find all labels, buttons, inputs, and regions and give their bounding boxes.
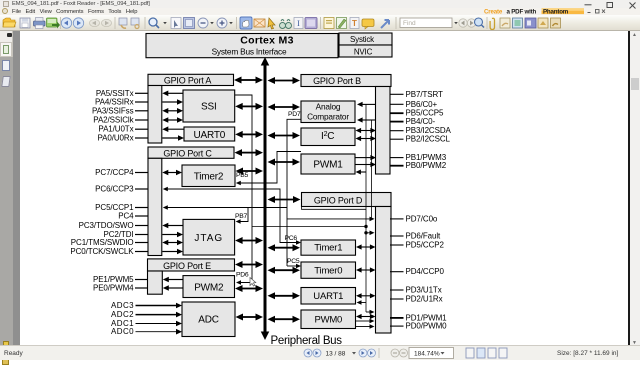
block JTAG	[183, 219, 235, 255]
GPIO Port A pin bar	[148, 86, 162, 144]
wire PortD box corner to Va	[302, 207, 367, 210]
pin PC0/TCK/SWCLK	[70, 247, 148, 256]
pin PC6/CCP3	[95, 185, 148, 194]
svg-text:PD5/CCP2: PD5/CCP2	[406, 241, 445, 250]
pin PC5/CCP1	[95, 203, 148, 212]
wire UART0 out U0Tx	[162, 126, 184, 132]
GPIO Port B pin bar	[376, 87, 391, 175]
svg-text:PA1/U0Tx: PA1/U0Tx	[98, 125, 133, 134]
pin PD7/C0o	[390, 214, 438, 223]
wire PortC label-bus	[235, 149, 264, 156]
wire JTAG out TDO	[162, 223, 183, 229]
wire JTAG in TCK	[162, 249, 183, 255]
pin PB2/I2CSCL	[390, 135, 451, 144]
svg-text:ADC3: ADC3	[111, 301, 134, 310]
svg-text:PC6: PC6	[285, 235, 298, 242]
svg-text:PD7: PD7	[288, 111, 301, 118]
svg-text:PD6: PD6	[236, 272, 249, 279]
wire PWM1 out PWM3	[356, 155, 377, 160]
pin PB7/TSRT	[390, 90, 443, 99]
pin PD1/PWM1	[390, 313, 447, 322]
wire ADC-bus	[236, 314, 264, 321]
wire UART1 TxRx	[356, 293, 376, 298]
svg-text:Peripheral Bus: Peripheral Bus	[271, 335, 343, 347]
svg-text:Systick: Systick	[350, 35, 375, 44]
svg-text:ADC0: ADC0	[111, 327, 134, 336]
junction dot net Va lower	[364, 231, 367, 234]
svg-text:PWM1: PWM1	[313, 160, 343, 171]
svg-text:PA4/SSIRx: PA4/SSIRx	[95, 98, 134, 107]
pin PB5/CCP5	[390, 109, 444, 118]
svg-text:UART1: UART1	[313, 291, 343, 302]
mouse cursor	[250, 278, 256, 287]
block GPIO Port E label	[148, 259, 235, 271]
pin PD4/CCP0	[390, 267, 444, 276]
svg-text:PD7/C0o: PD7/C0o	[406, 214, 438, 223]
pin PB4/C0-	[390, 117, 435, 126]
svg-text:PB4/C0-: PB4/C0-	[406, 117, 436, 126]
toolbar	[0, 15, 640, 31]
svg-text:GPIO Port D: GPIO Port D	[314, 195, 363, 205]
svg-text:PWM0: PWM0	[314, 315, 342, 326]
wire net PD6 trunk	[235, 95, 252, 283]
wire comparator in C0-	[357, 117, 376, 122]
svg-text:PC7/CCP4: PC7/CCP4	[95, 168, 134, 177]
pin PD5/CCP2	[390, 241, 444, 250]
wire SSI SSIFss	[162, 108, 183, 114]
wire Va to PortD bar mid	[366, 231, 375, 236]
wire Timer2-bus	[236, 168, 264, 175]
svg-text:Cortex M3: Cortex M3	[240, 35, 293, 47]
svg-text:Comparator: Comparator	[307, 111, 349, 121]
svg-text:Timer0: Timer0	[314, 265, 342, 276]
svg-text:ADC2: ADC2	[111, 310, 134, 319]
svg-text:PE0/PWM4: PE0/PWM4	[93, 284, 134, 293]
svg-text:GPIO Port A: GPIO Port A	[164, 76, 212, 86]
pin PA2/SSIClk	[93, 116, 148, 125]
wire net PD6 cross to Va	[252, 226, 366, 228]
wire net PB5 Timer2 to PWM1	[236, 152, 301, 186]
block GPIO Port C label	[148, 147, 234, 158]
svg-text:PA0/U0Rx: PA0/U0Rx	[98, 134, 134, 143]
block PWM2	[183, 276, 235, 298]
pin PD6/Fault	[390, 232, 441, 241]
menu bar	[0, 8, 640, 15]
status bar	[0, 345, 640, 360]
pin ADC1	[111, 319, 182, 328]
svg-text:PC4: PC4	[118, 212, 134, 221]
pin PC7/CCP4	[95, 168, 148, 177]
left navigation strip	[0, 31, 13, 345]
svg-text:PB5: PB5	[236, 172, 248, 179]
svg-text:PD4/CCP0: PD4/CCP0	[406, 267, 445, 276]
wire UART1 extra in	[357, 300, 367, 305]
wire net PC5	[163, 205, 301, 268]
svg-text:SSI: SSI	[201, 102, 217, 113]
svg-text:PB0/PWM2: PB0/PWM2	[406, 161, 447, 170]
svg-text:PWM2: PWM2	[194, 283, 224, 294]
wire net PD7 comparator output	[287, 119, 375, 266]
svg-text:PC5: PC5	[287, 258, 300, 265]
document background gray	[13, 31, 20, 345]
svg-text:PB7: PB7	[235, 213, 247, 220]
wire net PC6	[163, 187, 301, 245]
pin PA1/U0Tx	[98, 125, 148, 134]
wire I2C SCL	[356, 136, 377, 141]
block GPIO Port D label	[302, 193, 392, 207]
pin PB6/C0+	[390, 100, 437, 109]
svg-text:GPIO Port C: GPIO Port C	[163, 148, 212, 158]
wire JTAG TMS/SWDIO	[162, 240, 183, 246]
pin PA0/U0Rx	[98, 134, 148, 143]
svg-text:PA3/SSIFss: PA3/SSIFss	[92, 106, 134, 115]
wire PWM0 out PD1	[356, 319, 375, 324]
block UART1	[301, 288, 356, 305]
block Timer2	[182, 165, 235, 187]
svg-text:PA2/SSIClk: PA2/SSIClk	[93, 116, 134, 125]
block I2C	[301, 128, 355, 146]
svg-text:PD6/Fault: PD6/Fault	[406, 232, 442, 241]
wire Va fault into PWM1	[356, 170, 367, 175]
block Analog Comparator	[301, 101, 355, 123]
wire PortE label-bus	[235, 261, 263, 268]
svg-text:I2C: I2C	[321, 131, 334, 142]
wire SSI in SSIRx	[162, 99, 183, 105]
pin PC1/TMS/SWDIO	[71, 238, 148, 247]
wire JTAG in TDI	[162, 232, 183, 238]
block PWM0	[301, 310, 356, 329]
GPIO Port D pin bar	[376, 207, 392, 334]
svg-text:GPIO Port E: GPIO Port E	[163, 261, 211, 271]
svg-text:Timer2: Timer2	[194, 172, 224, 183]
svg-text:PC1/TMS/SWDIO: PC1/TMS/SWDIO	[71, 238, 134, 247]
wire comparator in C0+	[357, 102, 376, 107]
wire UART0 in U0Rx	[162, 135, 184, 141]
wire bus-I2C	[268, 132, 301, 139]
junction dot net Va upper	[364, 225, 367, 228]
wire UART0-bus	[235, 131, 263, 138]
wire bus-PWM0	[268, 316, 301, 323]
svg-text:PB2/I2CSCL: PB2/I2CSCL	[406, 135, 451, 144]
block GPIO Port B label	[301, 75, 391, 87]
pin PA3/SSIFss	[92, 106, 148, 115]
pin PE0/PWM4	[93, 284, 148, 293]
block GPIO Port A label	[148, 74, 234, 85]
pin PA5/SSITx	[96, 89, 148, 98]
pin ADC0	[111, 327, 182, 336]
svg-text:GPIO Port B: GPIO Port B	[313, 76, 361, 86]
wire PortA label-bus	[234, 77, 263, 84]
pin ADC2	[111, 310, 182, 319]
wire Timer1 CCP	[356, 244, 376, 249]
wire PWM2-bus	[235, 285, 263, 292]
svg-text:PB7/TSRT: PB7/TSRT	[406, 90, 443, 99]
block SSI	[183, 90, 235, 122]
pin PB1/PWM3	[390, 153, 447, 162]
wire net PB7 to JTAG	[236, 208, 248, 224]
block Cortex M3 / System Bus Interface	[146, 34, 338, 58]
svg-text:PB6/C0+: PB6/C0+	[406, 100, 438, 109]
svg-text:UART0: UART0	[193, 130, 225, 141]
block PWM1	[301, 154, 355, 174]
pin PD3/U1Tx	[390, 286, 442, 295]
pin PA4/SSIRx	[95, 98, 148, 107]
pin PD0/PWM0	[390, 322, 447, 331]
wire PWM1 out PWM2	[356, 162, 377, 167]
pin PE1/PWM5	[93, 275, 148, 284]
application title bar	[0, 0, 640, 8]
window controls and promo banner overlay	[460, 0, 640, 16]
pin PC2/TDI	[104, 230, 148, 239]
svg-text:ADC: ADC	[198, 315, 219, 326]
wire bus-PortB label	[268, 77, 301, 84]
wire net Vb vertical	[371, 120, 373, 219]
pin PC4	[118, 212, 148, 221]
pin PB3/I2CSDA	[390, 126, 452, 135]
svg-text:PA5/SSITx: PA5/SSITx	[96, 89, 134, 98]
block ADC	[182, 302, 235, 337]
svg-text:PC6/CCP3: PC6/CCP3	[95, 185, 134, 194]
wire bus-comparator	[268, 104, 301, 111]
wire Timer2 CCP4	[162, 170, 182, 176]
wire I2C SDA	[356, 128, 377, 133]
block Timer0	[301, 262, 356, 278]
block UART0	[184, 127, 235, 141]
wire bus-PWM1	[268, 159, 301, 166]
wire SSI out SSITx	[162, 91, 183, 97]
GPIO Port C pin bar	[148, 158, 162, 255]
pin ADC3	[111, 301, 182, 310]
block NVIC	[339, 45, 392, 57]
svg-text:Timer1: Timer1	[314, 243, 342, 254]
pin PC3/TDO/SWO	[79, 221, 148, 230]
wire Va to PortD bar low	[366, 310, 375, 315]
svg-text:JTAG: JTAG	[194, 233, 223, 244]
vertical scrollbar	[630, 31, 640, 345]
GPIO Port E pin bar	[148, 271, 163, 294]
svg-text:PD0/PWM0: PD0/PWM0	[406, 322, 448, 331]
wire bus-PortD label	[268, 196, 301, 203]
wire PWM0 bus	[356, 314, 376, 319]
wire SSI-bus	[235, 103, 263, 110]
wire PWM2 out PWM5	[163, 277, 183, 283]
pin PB0/PWM2	[390, 161, 447, 170]
svg-text:System Bus Interface: System Bus Interface	[212, 46, 287, 56]
block Timer1	[301, 240, 356, 255]
svg-text:NVIC: NVIC	[354, 48, 373, 57]
wire PWM0 out PD0	[356, 324, 375, 329]
wire net Va vertical	[365, 104, 367, 312]
wire JTAG-bus	[235, 237, 263, 244]
block Systick	[339, 33, 392, 45]
wire SSI SSIClk	[162, 117, 183, 123]
wire bus-Timer0	[268, 267, 301, 274]
system/peripheral bus (vertical trunk)	[264, 63, 267, 334]
svg-text:PC0/TCK/SWCLK: PC0/TCK/SWCLK	[70, 247, 134, 256]
arrowhead net PD6 into PWM2	[236, 280, 241, 285]
wire bus-UART1	[268, 292, 301, 299]
svg-text:PD2/U1Rx: PD2/U1Rx	[406, 295, 443, 304]
wire bus-Timer1	[268, 244, 301, 251]
wire Timer0 CCP	[356, 267, 376, 272]
pin PD2/U1Rx	[390, 295, 443, 304]
svg-text:Analog: Analog	[316, 101, 341, 111]
page right border	[628, 31, 630, 345]
svg-text:PC3/TDO/SWO: PC3/TDO/SWO	[79, 221, 134, 230]
svg-text:PD3/U1Tx: PD3/U1Tx	[406, 286, 442, 295]
wire PWM2 out PWM4	[163, 285, 183, 291]
